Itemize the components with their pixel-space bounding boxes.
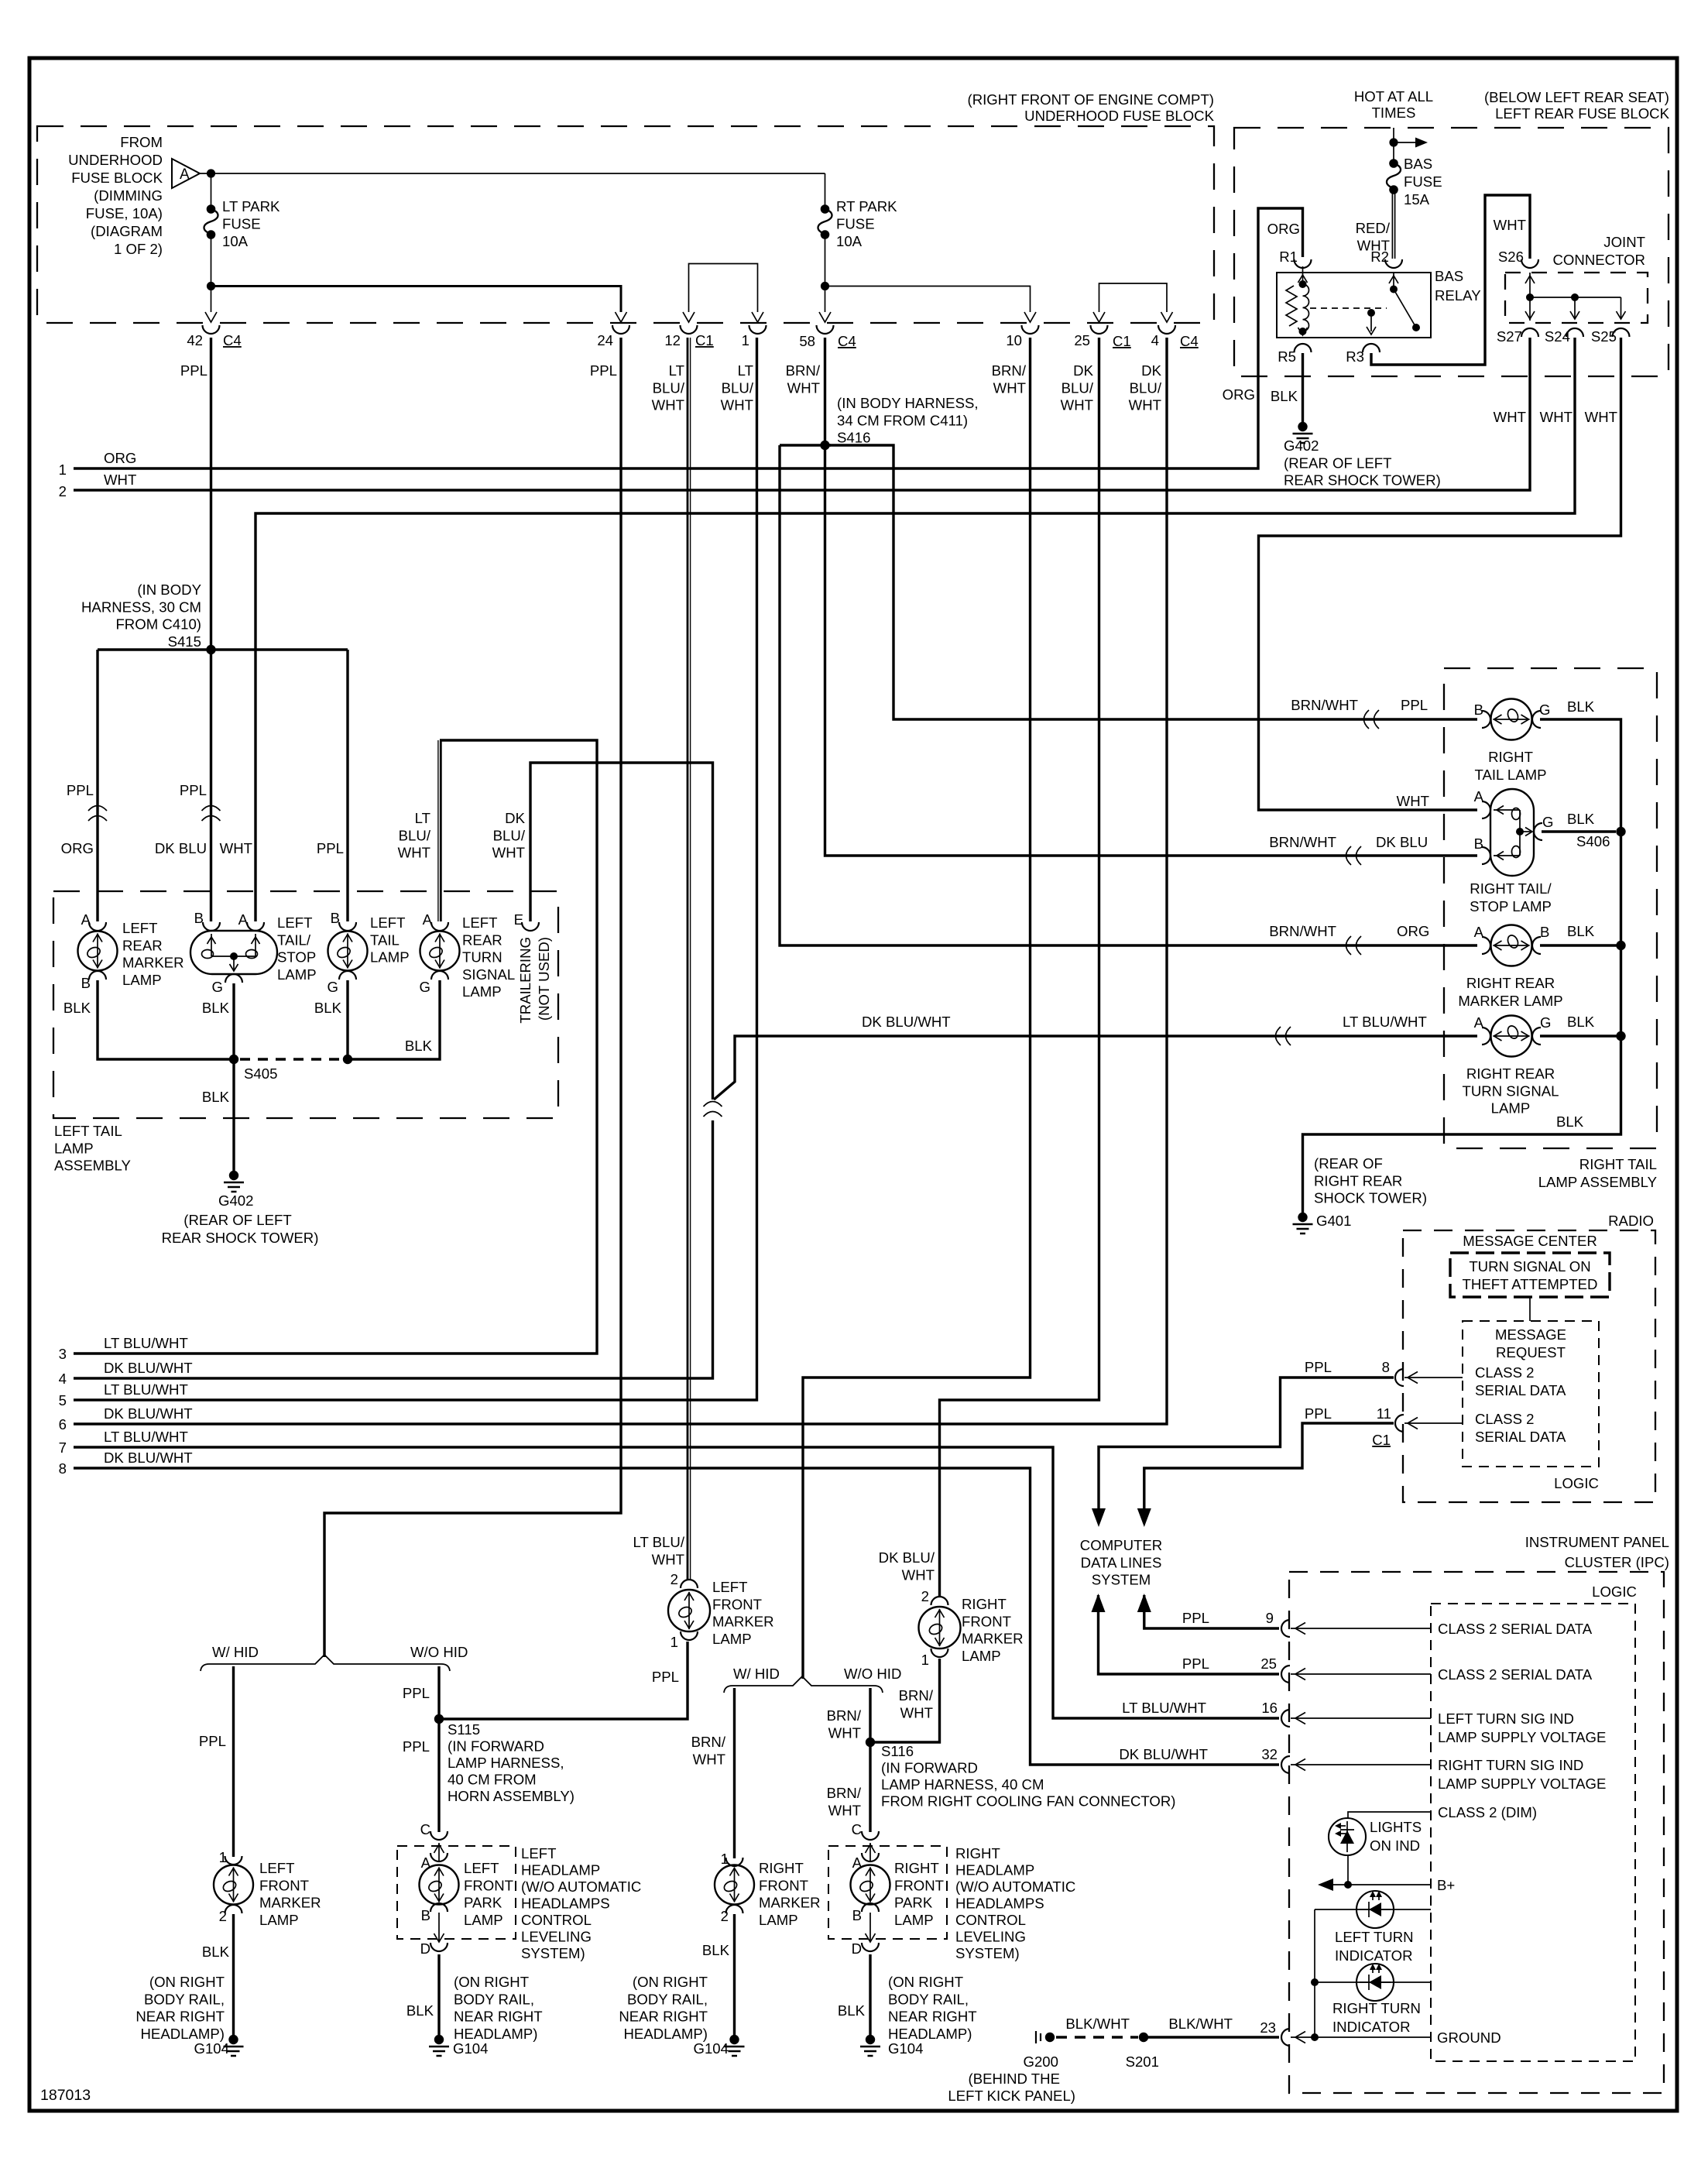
left rear fuse block dashed box [1234, 128, 1669, 376]
joint connector dashed box [1505, 273, 1648, 323]
svg-text:MESSAGE: MESSAGE [1495, 1326, 1566, 1343]
wire W HID branch to left front marker [232, 1666, 235, 1857]
wire RT PARK branch to pin 10 [825, 286, 1031, 313]
svg-text:RIGHT REAR: RIGHT REAR [1466, 975, 1555, 991]
wire 4 branch to right rear turn signal [714, 1036, 1477, 1100]
svg-text:LAMP: LAMP [54, 1140, 94, 1156]
lamp RIGHT FRONT PARK LAMP [869, 1843, 871, 1861]
svg-text:G401: G401 [1316, 1213, 1352, 1229]
svg-text:COMPUTER: COMPUTER [1080, 1537, 1162, 1553]
pin R5 [1295, 344, 1312, 352]
svg-text:RIGHT: RIGHT [894, 1860, 939, 1876]
svg-text:S406: S406 [1576, 833, 1610, 849]
svg-text:FUSE BLOCK: FUSE BLOCK [71, 170, 163, 186]
ground G104 right park [866, 2035, 875, 2044]
svg-text:C: C [420, 1821, 430, 1837]
pin 10 [1022, 325, 1039, 334]
svg-text:BLU/: BLU/ [493, 827, 526, 843]
svg-text:CONNECTOR: CONNECTOR [1553, 252, 1646, 268]
svg-text:BLK/WHT: BLK/WHT [1168, 2016, 1233, 2032]
svg-text:LEFT TURN SIG IND: LEFT TURN SIG IND [1438, 1710, 1574, 1727]
svg-text:LT BLU/: LT BLU/ [633, 1534, 685, 1550]
BAS relay box [1277, 273, 1431, 338]
wire node to pin 42 arrow [211, 286, 212, 313]
svg-text:BLK: BLK [405, 1038, 433, 1054]
svg-text:(BEHIND THE: (BEHIND THE [969, 2071, 1060, 2087]
svg-text:(W/O AUTOMATIC: (W/O AUTOMATIC [955, 1879, 1075, 1895]
dashed BLK/WHT G200 to S201 [1056, 2036, 1138, 2038]
node turn BLK [1616, 1031, 1625, 1041]
message request dashed box [1463, 1321, 1599, 1467]
svg-text:B: B [852, 1907, 862, 1923]
node hot feed [1389, 138, 1398, 146]
svg-text:4: 4 [59, 1371, 67, 1387]
svg-text:4: 4 [1151, 332, 1159, 348]
svg-text:B: B [421, 1907, 430, 1923]
pin 58 C4 [817, 325, 834, 334]
splice S116 [866, 1738, 875, 1747]
svg-text:10A: 10A [836, 233, 863, 249]
wire PPL radio 8 to data line arrow [1099, 1378, 1394, 1508]
pin 25 C1 [1091, 325, 1108, 334]
svg-text:(REAR OF LEFT: (REAR OF LEFT [183, 1212, 291, 1228]
svg-text:WHT: WHT [1397, 793, 1429, 809]
svg-text:BLK: BLK [202, 1000, 230, 1016]
wire hot feed into BAS fuse [1393, 128, 1394, 160]
lamp LEFT TAIL LAMP [339, 922, 356, 931]
svg-text:2: 2 [671, 1571, 678, 1587]
wire DK BLU/WHT pin25 to right front marker 2 [940, 338, 1099, 1597]
svg-text:ON IND: ON IND [1370, 1837, 1420, 1854]
wire PPL/DK BLU to left tail stop B [210, 650, 212, 921]
svg-text:BLK: BLK [702, 1942, 730, 1958]
svg-text:DK: DK [505, 810, 525, 826]
svg-text:INDICATOR: INDICATOR [1332, 2019, 1411, 2035]
pin 1 [749, 325, 767, 334]
svg-text:RED/: RED/ [1356, 220, 1391, 236]
wire RT PARK FUSE to node [825, 235, 826, 286]
svg-text:HEADLAMP): HEADLAMP) [624, 2026, 708, 2042]
svg-text:G: G [1539, 702, 1550, 718]
svg-text:(IN FORWARD: (IN FORWARD [881, 1760, 978, 1776]
svg-text:LT: LT [669, 362, 684, 379]
svg-text:RADIO: RADIO [1608, 1213, 1654, 1229]
svg-text:LEFT: LEFT [259, 1860, 294, 1876]
wire right park D to G104 [869, 1954, 871, 2035]
node marker BLK [1616, 941, 1625, 950]
svg-text:D: D [420, 1940, 430, 1957]
left front park lamp dashed box [397, 1846, 516, 1939]
svg-text:REAR: REAR [462, 932, 502, 948]
svg-text:FRONT: FRONT [962, 1613, 1011, 1629]
svg-text:GROUND: GROUND [1437, 2029, 1501, 2046]
svg-text:REQUEST: REQUEST [1496, 1344, 1566, 1360]
wire A node down to LT PARK FUSE [211, 173, 212, 206]
LED left turn indicator [1315, 1909, 1431, 1910]
wire LT PARK branch to pin 24 [211, 286, 622, 313]
svg-text:LAMP: LAMP [1491, 1100, 1531, 1117]
pin R3 [1363, 344, 1380, 352]
svg-text:LEFT: LEFT [521, 1845, 556, 1861]
svg-text:ORG: ORG [1223, 386, 1255, 403]
svg-text:SIGNAL: SIGNAL [462, 966, 515, 983]
svg-text:TURN SIGNAL ON: TURN SIGNAL ON [1469, 1258, 1590, 1275]
lamp RIGHT REAR MARKER LAMP [1482, 937, 1490, 954]
svg-text:LAMP: LAMP [277, 966, 317, 983]
svg-text:SHOCK TOWER): SHOCK TOWER) [1314, 1190, 1427, 1206]
fuse BAS FUSE 15A [1389, 159, 1398, 168]
relay dashed link [1310, 307, 1387, 309]
svg-text:PARK: PARK [464, 1895, 502, 1911]
svg-text:BLK: BLK [202, 1944, 230, 1960]
svg-text:PPL: PPL [180, 782, 207, 798]
svg-text:S24: S24 [1545, 328, 1570, 345]
svg-text:BRN/: BRN/ [827, 1707, 862, 1724]
ground G104 left marker [228, 2035, 238, 2044]
pin 24 [612, 325, 629, 334]
svg-text:FUSE: FUSE [1404, 173, 1442, 190]
left rail down [1314, 1909, 1315, 2037]
wire from triangle A to RT PARK FUSE [200, 173, 825, 174]
lamp RIGHT TAIL/STOP LAMP [1490, 789, 1534, 876]
jumper between pins 25 and 4 [1099, 283, 1168, 312]
svg-text:C: C [852, 1821, 862, 1837]
svg-text:S405: S405 [244, 1065, 277, 1082]
svg-text:34 CM FROM C411): 34 CM FROM C411) [837, 412, 968, 428]
wire S115 to left front marker top pin1 [439, 1642, 688, 1719]
splice S201 [1139, 2033, 1148, 2042]
svg-text:G104: G104 [888, 2040, 924, 2057]
lamp RIGHT FRONT MARKER LAMP upper [931, 1597, 948, 1605]
svg-text:(ON RIGHT: (ON RIGHT [633, 1974, 708, 1990]
svg-text:WHT: WHT [828, 1802, 861, 1818]
svg-text:WHT: WHT [492, 845, 525, 861]
svg-text:G: G [212, 979, 223, 995]
svg-text:HEADLAMPS: HEADLAMPS [521, 1896, 610, 1912]
wire BRN/WHT pin10 to right headlamp brace [803, 338, 1031, 1679]
svg-text:C4: C4 [1180, 333, 1199, 349]
svg-text:NEAR RIGHT: NEAR RIGHT [619, 2009, 708, 2025]
svg-text:SYSTEM): SYSTEM) [955, 1945, 1020, 1961]
svg-text:WHT: WHT [220, 840, 252, 856]
svg-text:25: 25 [1074, 332, 1090, 348]
svg-text:PPL: PPL [317, 840, 344, 856]
ground G402 relay [1298, 422, 1307, 431]
svg-text:BODY RAIL,: BODY RAIL, [888, 1991, 969, 2007]
svg-text:PPL: PPL [652, 1669, 679, 1685]
pin S24 [1566, 328, 1583, 337]
svg-text:G402: G402 [218, 1192, 254, 1209]
pin 4 C4 [1158, 325, 1175, 334]
wire right turn G to rail [1540, 1034, 1621, 1037]
brace W/HID W/O HID right [724, 1676, 883, 1693]
svg-text:BRN/: BRN/ [691, 1734, 726, 1750]
svg-text:RIGHT TURN SIG IND: RIGHT TURN SIG IND [1438, 1757, 1583, 1773]
svg-text:LEFT: LEFT [712, 1579, 747, 1595]
pin C right headlamp [862, 1831, 879, 1840]
svg-text:(IN BODY: (IN BODY [137, 582, 201, 598]
svg-text:PPL: PPL [1305, 1359, 1332, 1375]
svg-text:WHT: WHT [1129, 397, 1161, 413]
svg-text:BODY RAIL,: BODY RAIL, [144, 1991, 225, 2007]
wire 3 twisted pair drop [437, 740, 439, 921]
wire left turn G to node [348, 980, 440, 1059]
left tail lamp assembly dashed box [53, 891, 558, 1118]
svg-text:SYSTEM): SYSTEM) [521, 1945, 585, 1961]
rail marker to turn [1620, 945, 1622, 1036]
svg-text:BLK: BLK [63, 1000, 91, 1016]
svg-text:G: G [328, 979, 338, 995]
svg-text:DATA LINES: DATA LINES [1081, 1554, 1162, 1570]
svg-text:G104: G104 [694, 2040, 729, 2057]
svg-text:PPL: PPL [403, 1685, 430, 1701]
svg-text:G104: G104 [453, 2040, 489, 2057]
svg-text:REAR SHOCK TOWER): REAR SHOCK TOWER) [1284, 472, 1441, 489]
svg-text:INSTRUMENT PANEL: INSTRUMENT PANEL [1525, 1534, 1669, 1550]
svg-text:C1: C1 [695, 332, 714, 348]
svg-text:DK: DK [1073, 362, 1093, 379]
svg-text:LAMP: LAMP [122, 972, 162, 988]
svg-text:(BELOW LEFT REAR SEAT): (BELOW LEFT REAR SEAT) [1484, 89, 1669, 105]
svg-text:HEADLAMP): HEADLAMP) [888, 2026, 972, 2042]
svg-text:10A: 10A [222, 233, 249, 249]
svg-text:1: 1 [671, 1634, 678, 1650]
connector triangle A [172, 159, 200, 188]
svg-text:E: E [514, 911, 523, 928]
svg-text:G: G [1540, 1014, 1551, 1031]
svg-text:12: 12 [664, 332, 681, 348]
svg-text:11: 11 [1377, 1405, 1391, 1422]
joint connector internal bus [1529, 273, 1531, 321]
svg-text:PARK: PARK [894, 1895, 933, 1911]
brace W/HID W/O HID left [201, 1655, 450, 1671]
svg-text:(ON RIGHT: (ON RIGHT [149, 1974, 225, 1990]
svg-text:2: 2 [721, 1908, 729, 1924]
wire right tail stop G to S406 [1542, 830, 1616, 832]
svg-text:LEFT TURN: LEFT TURN [1335, 1929, 1414, 1945]
svg-text:REAR SHOCK TOWER): REAR SHOCK TOWER) [162, 1230, 319, 1246]
svg-text:(REAR OF: (REAR OF [1314, 1155, 1383, 1172]
svg-text:DK BLU: DK BLU [1376, 834, 1428, 850]
wire W/O HID branch to S115 [437, 1666, 440, 1832]
wire W/O HID to S116 [869, 1688, 871, 1832]
wire RED/WHT double line to relay R2 [1391, 190, 1393, 259]
svg-text:TURN: TURN [462, 949, 502, 966]
svg-text:RIGHT TURN: RIGHT TURN [1332, 2000, 1421, 2016]
fuse RT PARK FUSE 10A [825, 173, 826, 206]
ground G104 left park [434, 2035, 444, 2044]
svg-text:(RIGHT FRONT OF ENGINE COMPT): (RIGHT FRONT OF ENGINE COMPT) [968, 91, 1215, 108]
svg-text:W/ HID: W/ HID [733, 1666, 780, 1682]
svg-text:1 OF 2): 1 OF 2) [114, 241, 163, 257]
wire WHT from S24 to left tail stop lamp A [256, 338, 1575, 921]
svg-text:BLK/WHT: BLK/WHT [1065, 2016, 1130, 2032]
svg-text:ORG: ORG [104, 450, 136, 466]
svg-text:A: A [1474, 924, 1484, 940]
svg-text:WHT: WHT [900, 1704, 933, 1721]
svg-text:LAMP HARNESS, 40 CM: LAMP HARNESS, 40 CM [881, 1776, 1044, 1793]
svg-text:W/O HID: W/O HID [844, 1666, 901, 1682]
svg-text:S416: S416 [837, 430, 870, 446]
svg-text:(ON RIGHT: (ON RIGHT [454, 1974, 529, 1990]
svg-text:W/O HID: W/O HID [410, 1644, 468, 1660]
svg-text:LT PARK: LT PARK [222, 198, 280, 214]
svg-text:8: 8 [1382, 1359, 1390, 1375]
svg-text:PPL: PPL [180, 362, 207, 379]
wire data line to IPC 25 [1092, 1594, 1106, 1612]
svg-text:LAMP: LAMP [759, 1912, 798, 1928]
svg-text:B+: B+ [1437, 1877, 1455, 1893]
svg-text:WHT: WHT [104, 472, 136, 488]
svg-text:WHT: WHT [828, 1724, 861, 1741]
svg-text:16: 16 [1261, 1700, 1278, 1716]
svg-text:ORG: ORG [61, 840, 94, 856]
svg-text:S116: S116 [881, 1743, 914, 1759]
wire 6 DK BLU/WHT to pin 4 [74, 338, 1167, 1424]
svg-text:ORG: ORG [1397, 923, 1429, 939]
svg-text:CLASS 2: CLASS 2 [1475, 1364, 1534, 1381]
wire 58 BRN/WHT to S416 [824, 338, 826, 445]
svg-text:REAR: REAR [122, 937, 163, 953]
wire BLK/WHT S201 to IPC 23 [1144, 2036, 1279, 2038]
svg-text:BRN/: BRN/ [786, 362, 821, 379]
svg-text:CONTROL: CONTROL [521, 1912, 592, 1928]
svg-text:(IN FORWARD: (IN FORWARD [448, 1738, 544, 1755]
rail S406 to marker [1620, 832, 1622, 945]
svg-text:LAMP HARNESS,: LAMP HARNESS, [448, 1755, 564, 1771]
wire left park D to G104 [437, 1954, 440, 2035]
svg-text:LEVELING: LEVELING [955, 1929, 1026, 1945]
svg-text:R5: R5 [1278, 348, 1296, 365]
wire LT PARK FUSE to node [211, 235, 212, 286]
svg-text:RIGHT TAIL/: RIGHT TAIL/ [1470, 880, 1552, 897]
svg-text:BLU/: BLU/ [653, 379, 685, 396]
svg-text:HEADLAMP: HEADLAMP [955, 1862, 1034, 1879]
svg-text:C4: C4 [838, 333, 856, 349]
svg-text:LAMP: LAMP [464, 1912, 503, 1928]
wire right marker B to rail [1540, 944, 1621, 946]
svg-text:FUSE: FUSE [836, 216, 875, 232]
svg-text:HORN ASSEMBLY): HORN ASSEMBLY) [448, 1788, 574, 1804]
svg-text:G402: G402 [1284, 437, 1319, 454]
svg-text:1: 1 [921, 1652, 929, 1668]
svg-text:NEAR RIGHT: NEAR RIGHT [135, 2009, 225, 2025]
svg-text:LEFT: LEFT [277, 914, 312, 931]
svg-text:C1: C1 [1372, 1432, 1391, 1448]
svg-text:JOINT: JOINT [1603, 234, 1645, 250]
svg-text:LEFT REAR FUSE BLOCK: LEFT REAR FUSE BLOCK [1495, 105, 1670, 122]
svg-text:B: B [1474, 835, 1483, 852]
svg-text:A: A [1474, 1014, 1484, 1031]
svg-text:HEADLAMP): HEADLAMP) [141, 2026, 225, 2042]
ground G402 left tail [229, 1171, 238, 1180]
svg-text:LEVELING: LEVELING [521, 1929, 592, 1945]
wire S116 to right front marker upper [870, 1659, 940, 1742]
svg-text:ASSEMBLY: ASSEMBLY [54, 1158, 131, 1174]
svg-text:HEADLAMP): HEADLAMP) [454, 2026, 538, 2042]
relay coil [1299, 280, 1307, 288]
S415 rail [98, 648, 348, 650]
pin C left headlamp [430, 1831, 448, 1840]
svg-text:MARKER LAMP: MARKER LAMP [1458, 993, 1562, 1009]
svg-text:BLK: BLK [314, 1000, 342, 1016]
splice S405 [229, 1055, 238, 1064]
svg-text:1: 1 [742, 332, 749, 348]
turn signal on theft attempted box [1450, 1253, 1610, 1297]
svg-text:LEFT: LEFT [122, 920, 157, 936]
svg-text:S415: S415 [168, 633, 201, 650]
svg-text:FUSE: FUSE [222, 216, 261, 232]
svg-text:WHT: WHT [652, 1551, 684, 1567]
wire ORG from wire1 to relay R1 [74, 208, 1303, 468]
svg-text:RIGHT: RIGHT [759, 1860, 804, 1876]
svg-text:BRN/WHT: BRN/WHT [1269, 834, 1336, 850]
IPC ground line [1311, 2033, 1319, 2041]
svg-text:C4: C4 [223, 332, 242, 348]
lamp LEFT FRONT PARK LAMP [438, 1843, 440, 1861]
svg-text:SERIAL DATA: SERIAL DATA [1475, 1429, 1566, 1445]
svg-text:PPL: PPL [590, 362, 617, 379]
svg-text:BLK: BLK [1567, 923, 1595, 939]
svg-text:(DIAGRAM: (DIAGRAM [91, 223, 163, 239]
svg-text:24: 24 [597, 332, 613, 348]
svg-text:HEADLAMPS: HEADLAMPS [955, 1896, 1044, 1912]
wire WHT from S25 to right tail stop lamp A [1259, 338, 1621, 810]
svg-text:LAMP ASSEMBLY: LAMP ASSEMBLY [1538, 1174, 1657, 1190]
wire LED to B+ rail [1347, 1855, 1349, 1885]
wire left front marker to G104 [232, 1914, 235, 2035]
svg-text:W/ HID: W/ HID [212, 1644, 259, 1660]
svg-text:LT BLU/WHT: LT BLU/WHT [1343, 1014, 1427, 1030]
svg-text:G200: G200 [1024, 2053, 1059, 2070]
svg-text:A: A [1474, 788, 1484, 805]
wire BLK rail to G401 [1303, 1036, 1621, 1213]
svg-text:TAIL LAMP: TAIL LAMP [1475, 767, 1547, 783]
svg-text:S201: S201 [1126, 2053, 1159, 2070]
svg-text:2: 2 [921, 1588, 929, 1604]
svg-text:LAMP: LAMP [894, 1912, 934, 1928]
svg-text:58: 58 [799, 333, 815, 349]
svg-text:RIGHT REAR: RIGHT REAR [1466, 1065, 1555, 1082]
svg-text:LAMP: LAMP [370, 949, 410, 966]
svg-text:HEADLAMP: HEADLAMP [521, 1862, 600, 1879]
svg-text:NEAR RIGHT: NEAR RIGHT [454, 2009, 543, 2025]
svg-text:PPL: PPL [403, 1738, 430, 1755]
svg-text:BLK: BLK [1556, 1113, 1584, 1130]
svg-text:(IN BODY HARNESS,: (IN BODY HARNESS, [837, 395, 979, 411]
svg-text:MARKER: MARKER [122, 955, 184, 971]
wire right front marker to G104 [733, 1914, 736, 2035]
svg-text:LEFT: LEFT [464, 1860, 499, 1876]
connector on wire 4 [704, 1102, 722, 1107]
wire S405 to G402 [232, 1059, 235, 1171]
svg-text:42: 42 [187, 332, 203, 348]
svg-text:CLUSTER (IPC): CLUSTER (IPC) [1565, 1554, 1669, 1570]
svg-text:PPL: PPL [199, 1733, 226, 1749]
svg-text:(NOT USED): (NOT USED) [536, 937, 552, 1021]
svg-text:UNDERHOOD: UNDERHOOD [68, 152, 163, 168]
svg-text:TRAILERING: TRAILERING [517, 937, 533, 1024]
svg-text:BLU/: BLU/ [1130, 379, 1162, 396]
svg-text:(DIMMING: (DIMMING [94, 187, 163, 204]
pin E trailering [522, 922, 539, 931]
svg-text:LAMP SUPPLY VOLTAGE: LAMP SUPPLY VOLTAGE [1438, 1729, 1606, 1745]
svg-text:BRN/: BRN/ [827, 1785, 862, 1801]
svg-text:B: B [1474, 702, 1483, 718]
pin 42 C4 [203, 325, 220, 334]
svg-text:BRN/WHT: BRN/WHT [1269, 923, 1336, 939]
svg-text:WHT: WHT [1494, 409, 1526, 425]
